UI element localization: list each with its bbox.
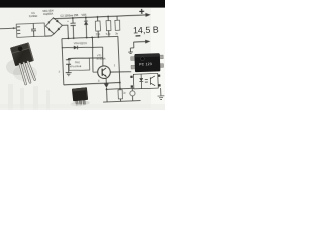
wire W2	[68, 57, 102, 59]
capacitor C1	[31, 23, 37, 36]
wire VT1 right	[110, 71, 131, 73]
wire top rail	[54, 15, 146, 19]
diode VD6	[74, 46, 78, 50]
resistor R4	[118, 90, 123, 99]
capacitor C3 to ground	[66, 58, 71, 72]
wire opto feed	[107, 88, 134, 89]
phototransistor inside U1	[145, 76, 156, 86]
wire collector	[102, 58, 104, 66]
bridge VD1-VD4	[45, 17, 63, 34]
wire W1	[62, 47, 102, 58]
bus wire	[62, 36, 118, 38]
optocoupler U1 symbol	[130, 73, 164, 100]
svg-text:КР142ЕН8: КР142ЕН8	[70, 66, 82, 68]
diode VD7	[104, 83, 108, 85]
resistor R3	[116, 16, 119, 30]
label bridge	[42, 9, 54, 16]
LED inside U1	[139, 74, 143, 89]
label plus	[139, 9, 144, 14]
wire mains input	[0, 27, 16, 30]
svg-text:VD5: VD5	[81, 13, 87, 17]
node dots bus	[67, 36, 99, 39]
photo chip DA1	[69, 87, 90, 107]
resistor R1	[97, 17, 100, 37]
wire emitter	[105, 78, 107, 84]
wire bottom rail of input to bridge	[45, 34, 55, 36]
capacitor C2	[70, 18, 76, 38]
svg-text:DA1: DA1	[75, 60, 81, 64]
wire H ground mid	[64, 83, 120, 85]
wire base column	[93, 38, 98, 72]
svg-text:VD6 КД226: VD6 КД226	[74, 41, 88, 45]
svg-text:14,5 В: 14,5 В	[133, 25, 159, 36]
svg-text:PC 123: PC 123	[139, 62, 152, 66]
wire bridge minus to bus	[62, 25, 68, 38]
svg-text:КЦ405А: КЦ405А	[43, 12, 53, 16]
connector X1 box	[16, 23, 45, 37]
minus output wire	[128, 42, 146, 54]
capacitor C4	[131, 88, 133, 90]
regulator DA1 box	[69, 58, 90, 70]
label minus	[136, 35, 141, 36]
svg-text:КТ829А: КТ829А	[96, 57, 105, 61]
resistor R2	[107, 16, 110, 36]
svg-text:510: 510	[96, 33, 101, 36]
ground under U1	[157, 88, 164, 100]
legs	[20, 62, 35, 84]
svg-text:0,22мк: 0,22мк	[29, 14, 38, 18]
wire emitter to bottom	[105, 88, 108, 102]
diode VD3	[57, 28, 60, 31]
transistor VT1	[98, 66, 111, 79]
top black bar	[0, 0, 165, 8]
diode VD5	[84, 17, 89, 37]
svg-text:С2 1000мк·25В: С2 1000мк·25В	[60, 13, 78, 18]
node dots top rail	[72, 16, 109, 19]
photo optocoupler PC123	[131, 53, 164, 72]
ground	[66, 73, 72, 76]
photo transistor KT829	[6, 42, 37, 84]
plus output arrow	[145, 13, 150, 17]
label C1 value	[29, 11, 38, 18]
wire right column	[118, 36, 120, 88]
wire left column	[62, 39, 64, 85]
wire bottom rail	[103, 101, 140, 103]
diode VD4	[48, 28, 51, 31]
diode VD2	[47, 21, 50, 24]
diode VD1	[56, 19, 59, 22]
